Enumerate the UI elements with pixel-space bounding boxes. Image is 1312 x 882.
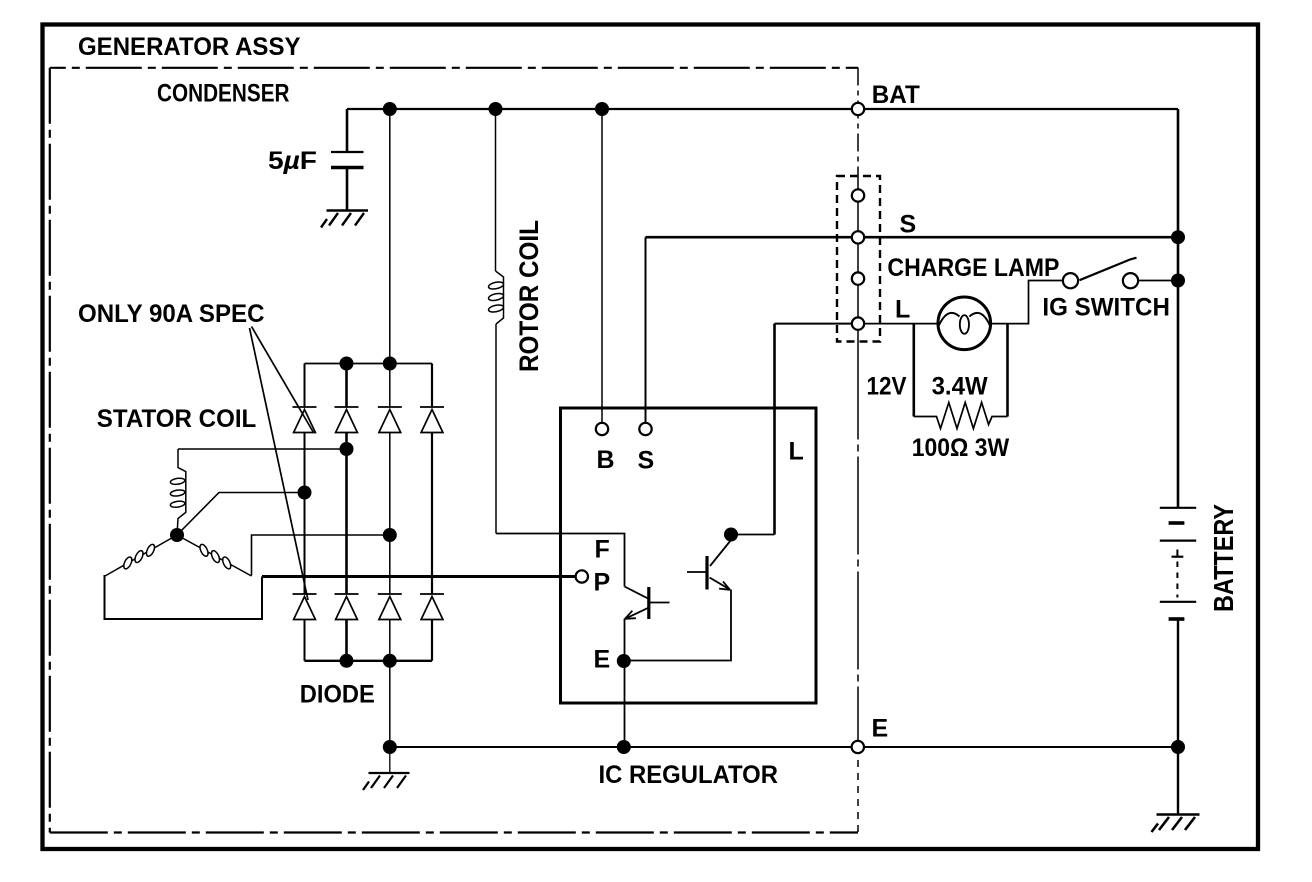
wire: S sense line	[645, 237, 647, 423]
svg-text:3.4W: 3.4W	[932, 373, 988, 401]
wire: F line from rotor coil	[496, 534, 625, 587]
generator assy dash-dot boundary bottom	[50, 831, 858, 833]
connector dashed box	[837, 176, 880, 342]
terminal B circle	[596, 423, 608, 435]
ground at battery	[1152, 815, 1200, 833]
diode column 4 wires	[431, 364, 433, 661]
transistor Q2	[710, 540, 731, 566]
stator coil right winding	[177, 535, 252, 576]
svg-text:IC REGULATOR: IC REGULATOR	[599, 761, 779, 789]
svg-text:STATOR COIL: STATOR COIL	[97, 405, 256, 433]
stator phase A wire to column 2	[178, 448, 347, 450]
junction: IG switch at right bus	[1171, 274, 1185, 288]
node E inside regulator	[617, 654, 631, 668]
svg-text:E: E	[872, 715, 889, 743]
svg-text:CONDENSER: CONDENSER	[157, 80, 290, 108]
connector pin circles	[852, 189, 864, 201]
junction: bottom rail col3	[383, 654, 397, 668]
svg-text:100Ω 3W: 100Ω 3W	[912, 434, 1010, 462]
diode D1 top (only 90A)	[293, 407, 317, 433]
wire: Q1 emitter to E	[624, 619, 626, 748]
wire: main B+ bus y=109	[347, 108, 1178, 110]
only-90A-spec pointer line B	[250, 328, 309, 600]
wire: lamp to switch riser	[991, 281, 1063, 324]
resistor R1 100ohm	[914, 403, 1008, 429]
diode column 3 wires	[389, 364, 391, 748]
junction: bottom rail col2	[340, 654, 354, 668]
diode D6 bottom	[335, 594, 359, 620]
junction: E rail at regulator E	[617, 740, 631, 754]
node L inside regulator	[724, 528, 738, 542]
generator assy dash-dot boundary top	[50, 67, 858, 69]
stator coil top winding	[177, 449, 186, 535]
diode D4 top	[420, 407, 444, 433]
stator center node	[170, 528, 184, 542]
svg-text:F: F	[595, 535, 610, 563]
svg-text:5µF: 5µF	[268, 147, 317, 175]
wire: switch to right bus	[1139, 280, 1179, 282]
wire: bus to diode rail x=389.8	[389, 109, 391, 364]
svg-text:CHARGE LAMP: CHARGE LAMP	[887, 254, 1059, 282]
capacitor C1 lead top	[346, 109, 349, 152]
connector vertical line segments x=858	[857, 68, 859, 177]
wire: B terminal drop x=602	[601, 109, 603, 423]
diode D3 top	[378, 407, 402, 433]
svg-text:ONLY 90A SPEC: ONLY 90A SPEC	[78, 300, 265, 328]
diode D2 top	[335, 407, 359, 433]
stator phase B wire to column 3	[252, 535, 390, 576]
svg-text:ROTOR COIL: ROTOR COIL	[514, 220, 544, 372]
IG switch left contact	[1063, 273, 1078, 288]
battery plates	[1160, 507, 1196, 509]
svg-text:E: E	[594, 646, 611, 674]
IC regulator box U1	[561, 408, 817, 703]
charge lamp bulb	[938, 297, 991, 350]
diode bridge bottom rail	[305, 660, 433, 662]
terminal E circle	[852, 741, 864, 753]
wire: E ground rail y=747	[390, 746, 1178, 748]
IG switch right contact	[1123, 273, 1138, 288]
terminal BAT circle	[852, 103, 864, 115]
IG switch lever	[1080, 258, 1137, 281]
generator assy dash-dot boundary left	[49, 68, 51, 833]
svg-text:BAT: BAT	[872, 81, 920, 109]
wire: right vertical bus x=1178	[1177, 109, 1180, 508]
svg-text:DIODE: DIODE	[300, 681, 375, 709]
stator coil left winding	[105, 535, 177, 576]
junction: bus to B terminal	[595, 102, 609, 116]
wire: Q2 emitter to E	[625, 590, 732, 661]
svg-text:S: S	[638, 447, 655, 475]
wire: lamp row	[865, 323, 939, 325]
junction: bus to diode rail	[383, 102, 397, 116]
svg-text:L: L	[789, 438, 804, 466]
junction: S line at right bus	[1171, 230, 1185, 244]
capacitor C1 lead bottom	[346, 168, 349, 211]
junction: phase A at col2	[340, 442, 354, 456]
diode D8 bottom	[420, 594, 444, 620]
wire: battery bottom to ground rail	[1177, 619, 1179, 815]
ground at condenser	[321, 211, 368, 228]
junction: E rail at battery	[1171, 740, 1185, 754]
capacitor C1 plates	[331, 151, 364, 153]
svg-text:S: S	[900, 211, 917, 239]
terminal P circle	[576, 570, 588, 582]
ground at diode bridge	[389, 747, 391, 773]
wire: P thick line	[262, 575, 576, 578]
diode D5 bottom (only 90A)	[293, 594, 317, 620]
wire: L drop into regulator	[773, 324, 776, 535]
junction: top rail col2	[340, 357, 354, 371]
svg-text:B: B	[597, 446, 615, 474]
stator neutral wire to column 1	[177, 493, 305, 536]
stator phase C wire to P line	[105, 575, 263, 619]
junction: neutral at col1	[298, 486, 312, 500]
lamp box right vertical	[1006, 324, 1009, 417]
svg-text:BATTERY: BATTERY	[1208, 504, 1239, 612]
junction: phase B at col3	[383, 528, 397, 542]
diode bridge top rail	[305, 363, 433, 365]
junction: E rail at diode ground	[383, 740, 397, 754]
svg-text:P: P	[594, 569, 611, 597]
svg-text:L: L	[895, 296, 910, 324]
transistor Q1	[625, 587, 649, 599]
junction: top rail col3	[383, 357, 397, 371]
diode column 2 wires	[345, 364, 348, 661]
rotor coil lead + loops x=495.5	[495, 109, 497, 271]
diode D7 bottom	[378, 594, 402, 620]
terminal S circle	[639, 423, 651, 435]
lamp box left vertical	[912, 324, 915, 417]
diode column 1 wires	[304, 364, 306, 661]
junction: bus to rotor coil	[489, 102, 503, 116]
only-90A-spec pointer line A	[252, 327, 314, 433]
svg-text:12V: 12V	[867, 372, 907, 400]
svg-text:IG SWITCH: IG SWITCH	[1042, 294, 1170, 322]
svg-text:GENERATOR ASSY: GENERATOR ASSY	[78, 33, 301, 61]
